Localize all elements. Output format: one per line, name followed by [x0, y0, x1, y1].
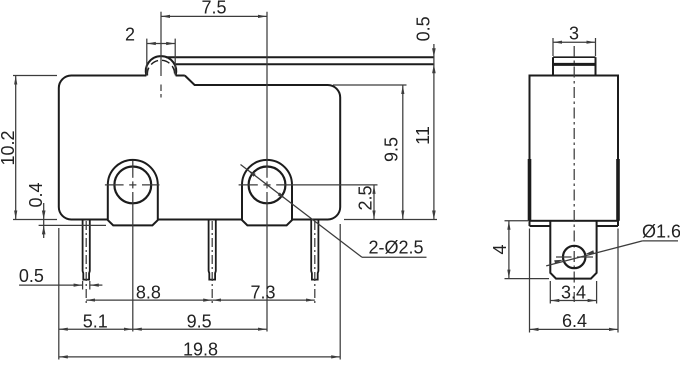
dim 5.1 line: [59, 328, 133, 330]
left hole horizontal centerline: [105, 184, 124, 186]
plunger extension lines: [552, 38, 554, 56]
dim 19.8 line: [59, 356, 340, 358]
dim 3 line: [553, 41, 596, 43]
dim 2.5 line: [373, 185, 375, 220]
dim 0.5 lever lower arrow / dim 11 top arrow: [432, 64, 436, 73]
svg-text:0.5: 0.5: [19, 266, 44, 286]
side right foot: [617, 221, 619, 226]
svg-text:10.2: 10.2: [0, 130, 18, 165]
body left extension line: [58, 228, 60, 360]
dim 8.8 line: [86, 299, 212, 301]
svg-text:3.4: 3.4: [561, 283, 586, 303]
pin width extension lines: [82, 281, 84, 290]
svg-text:9.5: 9.5: [382, 137, 402, 162]
dim 0.4 line: [43, 203, 45, 238]
body bottom extension line left: [13, 219, 57, 221]
side plunger lever line (thick): [553, 63, 596, 66]
terminal hole leader line: [546, 241, 642, 266]
svg-text:Ø1.6: Ø1.6: [642, 222, 680, 242]
dim 2 left extension line: [146, 39, 148, 75]
dim 0.5 lever upper arrow: [432, 48, 436, 57]
hole diameter leader arrows: [248, 170, 256, 177]
svg-text:2-Ø2.5: 2-Ø2.5: [368, 238, 423, 258]
dim 4 line: [508, 221, 510, 279]
side terminal outline: [550, 221, 596, 279]
dim 2 right extension line: [174, 39, 176, 75]
dim 0.5 pin line right: [90, 284, 103, 286]
body bottom extension line right: [344, 219, 437, 221]
dim 9.5 vertical line: [402, 85, 404, 220]
dim 2 line: [147, 43, 175, 45]
terminal hole: [563, 246, 585, 268]
left hole vertical centerline: [132, 161, 134, 178]
terminal pin 2: [209, 220, 216, 280]
plunger button dome: [146, 56, 176, 75]
dim 3.4 line: [550, 300, 596, 302]
dim 6.4 line: [530, 328, 619, 330]
dim 0.4 upper arrow: [42, 211, 46, 220]
svg-text:2.5: 2.5: [356, 185, 376, 210]
terminal side extension lines: [549, 281, 551, 304]
side body right seam (thick): [616, 159, 620, 221]
dim 7.5 line: [161, 15, 267, 17]
lug bottom extension line: [39, 224, 106, 226]
svg-text:9.5: 9.5: [187, 311, 212, 331]
hidden plunger arc (dashed): [147, 60, 174, 75]
dim 9.5 bottom line: [133, 328, 267, 330]
right hole horizontal centerline: [239, 184, 258, 186]
svg-text:19.8: 19.8: [183, 339, 218, 359]
svg-text:11: 11: [413, 126, 433, 145]
svg-text:8.8: 8.8: [136, 282, 161, 302]
dim 0.5 lever / dim 11 line: [433, 44, 435, 220]
svg-text:7.5: 7.5: [201, 0, 226, 18]
step edge extension line: [333, 84, 407, 86]
dim 0.5 pin line left: [19, 284, 83, 286]
side view centerline: [573, 46, 575, 302]
svg-text:0.4: 0.4: [26, 182, 46, 207]
right mounting hole: [249, 167, 286, 204]
left mounting lug: [108, 160, 158, 226]
right hole vertical centerline (extends to dims): [266, 12, 268, 178]
dim 7.3 line: [212, 299, 315, 301]
side body bottom extension line: [505, 220, 529, 222]
pin 3 centerline: [314, 221, 316, 304]
svg-text:0.5: 0.5: [414, 16, 434, 41]
side body extension lines: [529, 229, 531, 333]
body top extension line left: [13, 75, 57, 77]
dim 10.2 line: [15, 76, 17, 220]
pin 1 centerline: [85, 221, 87, 304]
dim 0.4 lower arrow: [42, 225, 46, 234]
svg-text:4: 4: [490, 244, 510, 254]
svg-text:5.1: 5.1: [83, 311, 108, 331]
terminal pin 3: [311, 220, 318, 280]
side body left seam (thick): [528, 159, 532, 221]
hole diameter leader line: [241, 165, 363, 258]
dim 11 bottom arrow: [432, 211, 436, 220]
switch body outline (front view): [59, 76, 340, 220]
side body outline: [530, 76, 619, 221]
side plunger top edge: [553, 56, 596, 58]
side plunger sides: [552, 57, 554, 75]
terminal bottom extension line: [505, 278, 550, 280]
right mounting lug: [242, 160, 292, 226]
pin 2 centerline: [211, 221, 213, 305]
lever arm bottom edge: [175, 63, 434, 65]
left mounting hole: [114, 167, 151, 204]
svg-text:6.4: 6.4: [562, 311, 587, 331]
terminal hole horizontal centerline: [556, 256, 572, 258]
button centerline: [160, 12, 162, 76]
terminal pin 1: [83, 220, 90, 280]
terminal hole leader arrows: [554, 260, 563, 264]
svg-text:2: 2: [125, 25, 135, 45]
svg-text:3: 3: [569, 24, 579, 44]
lever arm top edge: [166, 56, 434, 58]
body right extension line: [339, 224, 341, 360]
svg-text:7.3: 7.3: [250, 282, 275, 302]
side left foot: [529, 221, 531, 226]
